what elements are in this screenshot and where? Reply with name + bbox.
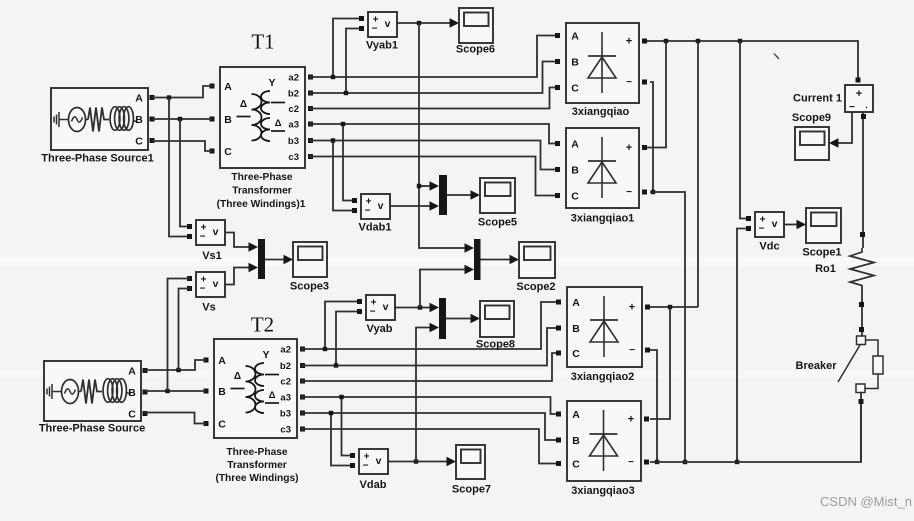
wire Source1.A to T1.A [152, 86, 212, 100]
svg-text:−: − [370, 307, 376, 318]
svg-text:(Three Windings)1: (Three Windings)1 [217, 199, 306, 210]
svg-text:+: + [628, 414, 634, 426]
wire T1.c3 to bridge2.C [309, 157, 555, 196]
three-phase transformer T1 [210, 67, 314, 210]
svg-text:v: v [213, 278, 219, 290]
mux Mux2 [474, 239, 481, 280]
svg-text:C: C [571, 191, 579, 203]
svg-text:v: v [772, 218, 778, 230]
mux Mux3 [258, 239, 265, 279]
wire node B2 to Vs plus [168, 279, 191, 392]
wire Mux5 to Scope5 [447, 190, 480, 200]
svg-text:−: − [626, 187, 632, 198]
wire Vs.v to Scope3 mux [226, 263, 258, 285]
svg-text:Vdc: Vdc [759, 241, 779, 253]
watermark CSDN @Mist_n [820, 494, 912, 509]
svg-text:a3: a3 [288, 120, 299, 131]
wire Source2.B to T2.B [145, 389, 206, 393]
wire T2.c2 to bridge3.C [301, 353, 556, 381]
svg-text:Y: Y [268, 77, 275, 89]
svg-text:Breaker: Breaker [796, 360, 838, 372]
svg-text:v: v [213, 226, 219, 238]
wire Mux3 to Scope3 [265, 255, 293, 265]
wire Breaker to bottom bus [859, 393, 864, 463]
svg-text:Scope1: Scope1 [802, 247, 841, 259]
universal bridge 3xiangqiao1 [555, 128, 647, 225]
wire Vyab1 branch to Scope5 mux [417, 181, 439, 191]
svg-text:Scope9: Scope9 [792, 112, 831, 124]
svg-text:Three-Phase Source: Three-Phase Source [39, 423, 145, 435]
svg-text:A: A [218, 355, 226, 367]
stray mark [774, 54, 779, 60]
svg-text:Scope7: Scope7 [452, 484, 491, 496]
svg-text:Three-Phase: Three-Phase [226, 447, 287, 458]
wire T2.b3 to bridge4.B [301, 413, 556, 440]
svg-text:A: A [572, 409, 580, 421]
svg-text:Δ: Δ [240, 99, 247, 110]
svg-text:Vyab: Vyab [367, 323, 393, 335]
svg-text:Δ: Δ [275, 118, 282, 129]
wire Vdab branch to Scope8 mux [416, 323, 439, 462]
wire T2.a2 tap to Vyab plus [323, 302, 359, 352]
svg-text:A: A [135, 93, 143, 105]
wire Vdc minus down to bus [735, 229, 748, 465]
svg-text:C: C [218, 419, 226, 431]
wire plus bus down to bridge3 node [697, 41, 699, 307]
svg-text:−: − [626, 77, 632, 88]
wire Ro1 to Breaker [859, 288, 864, 336]
wire plus bus to Vdc plus [740, 41, 748, 219]
wire Vyab1.v to Scope6 [397, 18, 459, 28]
svg-text:Scope5: Scope5 [478, 217, 517, 229]
wire bottom bus from bridge4 minus [650, 404, 861, 462]
breaker Breaker [796, 336, 883, 393]
svg-text:Vdab: Vdab [360, 479, 387, 491]
svg-text:v: v [383, 301, 389, 313]
svg-text:Transformer: Transformer [232, 186, 291, 197]
scope Scope7 [452, 445, 491, 496]
svg-text:Scope6: Scope6 [456, 44, 495, 56]
voltage measurement Vdc [746, 212, 784, 253]
wire T1.a3 to bridge2.A [309, 124, 555, 144]
scope Scope9 [792, 112, 831, 160]
svg-text:B: B [572, 435, 580, 447]
svg-text:Vs: Vs [202, 302, 215, 314]
svg-text:Δ: Δ [269, 390, 276, 401]
svg-text:C: C [572, 459, 580, 471]
wire T2.c3 to bridge4.C [301, 429, 556, 464]
wire Vyab.v to Scope8 mux [394, 303, 439, 313]
transformer T1 title [251, 30, 274, 54]
voltage measurement Vs [187, 272, 225, 314]
svg-text:B: B [224, 114, 232, 126]
svg-text:A: A [571, 139, 579, 151]
scope Scope5 [478, 178, 517, 229]
svg-text:+: + [629, 302, 635, 314]
resistor Ro1 [815, 248, 874, 288]
wire T2.a2 to bridge3.A [301, 302, 556, 349]
svg-text:−: − [759, 224, 765, 235]
wire b2 tap to Vyab1 minus [344, 29, 361, 96]
svg-text:+: + [856, 88, 862, 100]
wire a2 tap to Vyab1 plus [331, 19, 361, 80]
wire bridge4 plus up to node [650, 307, 670, 419]
three-phase transformer T2 [204, 339, 306, 484]
svg-text:CSDN @Mist_n: CSDN @Mist_n [820, 494, 912, 509]
svg-text:A: A [224, 81, 232, 93]
wire Vs1.v to Scope3 mux [226, 233, 258, 252]
wire Current1 to Ro1 [860, 112, 866, 248]
voltage measurement Vyab [357, 295, 395, 335]
voltage measurement Vdab1 [352, 194, 392, 234]
wire Mux8 to Scope8 [446, 314, 480, 324]
svg-text:Scope3: Scope3 [290, 281, 329, 293]
svg-text:A: A [571, 31, 579, 43]
scope Scope1 [802, 208, 841, 259]
wire bridge3 plus to node [650, 305, 698, 309]
svg-text:C: C [128, 409, 136, 421]
svg-text:T1: T1 [251, 30, 274, 54]
svg-text:a3: a3 [280, 393, 291, 404]
wire Source2.C to T2.C [145, 413, 206, 424]
wire Source1.B to T1.B [152, 117, 212, 121]
wire Vdab.v to Scope7 [388, 457, 456, 467]
svg-text:+: + [626, 36, 632, 48]
svg-text:b3: b3 [280, 409, 291, 420]
svg-text:B: B [572, 323, 580, 335]
svg-text:b2: b2 [288, 89, 299, 100]
svg-text:B: B [135, 114, 143, 126]
svg-text:B: B [218, 386, 226, 398]
svg-text:b3: b3 [288, 136, 299, 147]
svg-text:C: C [224, 146, 232, 158]
svg-text:Three-Phase: Three-Phase [231, 172, 292, 183]
svg-text:c2: c2 [288, 104, 299, 115]
svg-text:Vs1: Vs1 [202, 250, 222, 262]
svg-text:Vdab1: Vdab1 [358, 222, 391, 234]
wire Vyab branch to Scope2 mux [420, 265, 474, 308]
svg-text:Scope8: Scope8 [476, 339, 515, 351]
wire a3 tap to Vdab1 plus [341, 122, 354, 201]
voltage measurement Vdab [350, 449, 388, 491]
svg-text:a2: a2 [280, 345, 291, 356]
scope Scope3 [290, 242, 329, 293]
svg-text:A: A [128, 366, 136, 378]
wire bridge2 minus to bus [650, 192, 687, 464]
svg-text:B: B [128, 387, 136, 399]
wire T1.b3 to bridge2.B [309, 141, 555, 170]
svg-text:Ro1: Ro1 [815, 263, 836, 275]
wire T1.c2 to bridge1.C [309, 88, 555, 109]
svg-text:Three-Phase Source1: Three-Phase Source1 [41, 153, 154, 165]
svg-text:B: B [571, 165, 579, 177]
svg-text:Δ: Δ [234, 371, 241, 382]
svg-text:B: B [571, 57, 579, 69]
universal bridge 3xiangqiao3 [556, 401, 649, 497]
svg-text:c2: c2 [280, 377, 291, 388]
svg-text:−: − [849, 102, 855, 113]
svg-text:C: C [135, 136, 143, 148]
wire Source2.A to T2.A [145, 360, 206, 372]
svg-text:Y: Y [262, 349, 269, 361]
wire T1.a2 to bridge1.A [309, 36, 555, 78]
svg-text:v: v [376, 455, 382, 467]
svg-text:Current 1: Current 1 [793, 93, 842, 105]
wire Mux2 to Scope2 [481, 255, 520, 265]
wire bridge1 minus down [650, 82, 655, 194]
universal bridge 3xiangqiao [555, 23, 647, 118]
svg-text:−: − [629, 345, 635, 356]
wire Vdab1.v to Scope5 mux [390, 201, 439, 211]
svg-text:−: − [365, 206, 371, 217]
wire bridge3 minus down to bus [650, 350, 659, 464]
transformer T2 title [251, 313, 274, 337]
wire T2.b2 to bridge3.B [301, 328, 556, 366]
wire T2.b2 tap to Vyab minus [334, 312, 359, 368]
wire T2.a3 to bridge4.A [301, 397, 556, 414]
svg-text:Transformer: Transformer [227, 460, 286, 471]
svg-text:v: v [378, 200, 384, 212]
svg-text:−: − [363, 461, 369, 472]
wire T1.b2 to bridge1.B [309, 62, 555, 94]
svg-text:v: v [385, 18, 391, 30]
svg-text:Scope2: Scope2 [516, 281, 555, 293]
svg-text:−: − [200, 232, 206, 243]
wire plus bus to bridge2 plus [647, 41, 666, 148]
mux Mux5 [439, 175, 447, 215]
svg-text:a2: a2 [288, 73, 299, 84]
svg-text:C: C [572, 348, 580, 360]
svg-text:(Three Windings): (Three Windings) [215, 473, 298, 484]
svg-text:3xiangqiao1: 3xiangqiao1 [571, 213, 635, 225]
wire Vyab1 branch down to Scope2 mux [419, 23, 474, 253]
svg-text:3xiangqiao2: 3xiangqiao2 [571, 371, 635, 383]
svg-text:·: · [865, 103, 868, 113]
wire T2.b3 tap to Vdab minus [329, 411, 352, 466]
universal bridge 3xiangqiao2 [556, 287, 650, 383]
three-phase source Source2 [39, 361, 148, 435]
wire b3 tap to Vdab1 minus [331, 138, 354, 210]
voltage measurement Vs1 [187, 220, 225, 262]
svg-text:c3: c3 [280, 425, 291, 436]
current measurement Current1 [793, 85, 873, 113]
svg-text:3xiangqiao3: 3xiangqiao3 [571, 485, 635, 497]
svg-text:−: − [200, 284, 206, 295]
scope Scope6 [456, 8, 495, 56]
svg-text:−: − [372, 24, 378, 35]
mux Mux8 [439, 298, 446, 339]
wire Vdc.v to Scope1 [784, 220, 806, 230]
wire node A2 to Vs minus [179, 289, 191, 371]
svg-text:b2: b2 [280, 361, 291, 372]
svg-text:+: + [626, 142, 632, 154]
three-phase source Source1 [41, 88, 154, 165]
wire positive bus to Current1 [647, 39, 861, 83]
wire Current1.i to Scope9 [829, 112, 852, 148]
wire Source1.C to T1.C [152, 141, 212, 151]
svg-text:T2: T2 [251, 313, 274, 337]
wire T2.a3 tap to Vdab plus [339, 395, 352, 456]
svg-text:A: A [572, 297, 580, 309]
svg-text:Vyab1: Vyab1 [366, 40, 398, 52]
scope Scope2 [516, 242, 555, 293]
svg-text:C: C [571, 83, 579, 95]
wire node B to Vs1 plus [180, 119, 190, 227]
svg-text:c3: c3 [288, 152, 299, 163]
scope Scope8 [476, 301, 515, 351]
voltage measurement Vyab1 [359, 12, 398, 52]
svg-text:3xiangqiao: 3xiangqiao [572, 106, 630, 118]
wire node A to Vs1 minus [169, 98, 190, 237]
svg-text:−: − [628, 457, 634, 468]
